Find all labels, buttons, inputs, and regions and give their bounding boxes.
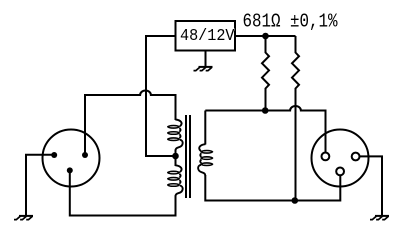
svg-text:48/12V: 48/12V	[180, 27, 235, 46]
J2 pin 1	[352, 153, 360, 161]
wire: left XLR pin1 up and over to transformer primary top, hop over supply wire	[85, 91, 176, 155]
resistor R2 681R	[292, 36, 299, 201]
connector J2 right XLR male	[312, 130, 369, 187]
wire: secondary top rail, hop over R2 lead, down to right XLR pin2	[205, 106, 325, 152]
secondary winding	[198, 144, 213, 175]
wire: 48/12V output right to resistors top rail	[235, 35, 296, 37]
J1 pin 3	[67, 167, 73, 173]
wire: right XLR pin1 to ground	[360, 156, 383, 216]
resistor R1 681R	[262, 36, 269, 111]
wire: left XLR pin3 down and right to primary bottom	[70, 170, 176, 215]
ground	[194, 67, 213, 71]
transformer T1	[167, 115, 213, 198]
wire: left XLR pin2 to ground	[26, 155, 54, 216]
power box U1 48/12V	[176, 21, 236, 51]
wire: primary center tap segment	[175, 150, 177, 167]
transformer core	[185, 115, 187, 198]
svg-text:681Ω ±0,1%: 681Ω ±0,1%	[243, 11, 338, 33]
J2 pin 3	[336, 168, 344, 176]
J1 pin 2	[51, 152, 57, 158]
wire: secondary bottom rail to right XLR pin3	[205, 175, 340, 201]
wire: 48/12V ground stub	[205, 51, 207, 67]
J2 pin 2	[322, 153, 330, 161]
J1 pin 1	[82, 152, 88, 158]
junction dot: transformer center tap	[172, 153, 179, 160]
primary winding lower	[167, 165, 183, 196]
wire: secondary top lead	[204, 111, 206, 145]
ground	[370, 216, 389, 220]
junction dot: R1 top	[262, 33, 269, 40]
ground	[14, 216, 33, 220]
connector J1 left XLR female	[43, 130, 100, 187]
junction dot: R1 bottom	[262, 107, 269, 114]
junction dot: R2 bottom	[292, 197, 299, 204]
primary winding upper	[167, 120, 183, 151]
wire: 48/12V output left down to transformer center tap	[146, 36, 176, 156]
